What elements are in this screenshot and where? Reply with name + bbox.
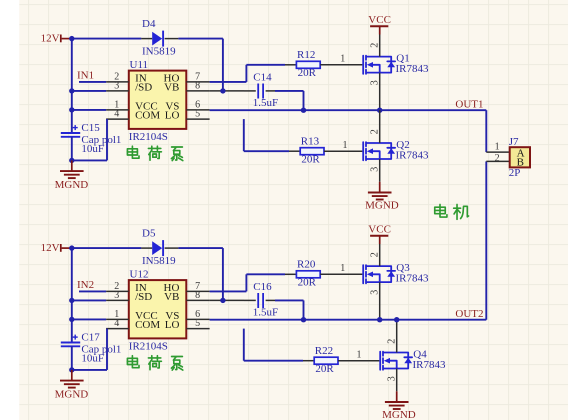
svg-text:1.5uF: 1.5uF	[253, 306, 278, 318]
svg-text:LO: LO	[165, 110, 180, 122]
svg-text:2: 2	[495, 153, 500, 164]
svg-text:R12: R12	[297, 49, 315, 61]
svg-text:5: 5	[195, 109, 200, 120]
svg-text:LO: LO	[165, 319, 180, 331]
svg-text:MGND: MGND	[365, 199, 399, 211]
svg-text:20R: 20R	[315, 363, 334, 375]
svg-text:U12: U12	[130, 269, 149, 281]
svg-text:2: 2	[370, 252, 381, 257]
svg-text:1: 1	[340, 263, 345, 274]
svg-text:C15: C15	[81, 122, 100, 134]
svg-text:IN1: IN1	[77, 70, 94, 82]
svg-text:IR7843: IR7843	[396, 149, 430, 161]
svg-text:1: 1	[343, 140, 348, 151]
svg-text:4: 4	[114, 318, 119, 329]
svg-text:20R: 20R	[298, 67, 317, 79]
svg-text:20R: 20R	[301, 153, 320, 165]
svg-text:MGND: MGND	[55, 179, 89, 191]
svg-text:1: 1	[495, 142, 500, 153]
svg-text:5: 5	[195, 318, 200, 329]
svg-text:IN5819: IN5819	[142, 255, 176, 267]
svg-text:U11: U11	[130, 59, 149, 71]
svg-text:IR2104S: IR2104S	[129, 340, 168, 352]
svg-text:C16: C16	[253, 281, 272, 293]
svg-text:C14: C14	[253, 71, 272, 83]
svg-text:3: 3	[114, 290, 119, 301]
svg-text:COM: COM	[135, 319, 160, 331]
svg-text:IN5819: IN5819	[142, 46, 176, 58]
svg-text:8: 8	[195, 290, 200, 301]
svg-text:12V: 12V	[41, 242, 60, 254]
svg-text:VCC: VCC	[368, 224, 391, 236]
svg-text:COM: COM	[135, 110, 160, 122]
svg-text:20R: 20R	[298, 277, 317, 289]
svg-text:VCC: VCC	[368, 14, 391, 26]
svg-text:R13: R13	[301, 136, 320, 148]
svg-text:MGND: MGND	[55, 388, 89, 400]
svg-text:MGND: MGND	[382, 409, 416, 420]
svg-text:IR7843: IR7843	[396, 63, 430, 75]
svg-text:R22: R22	[315, 345, 333, 357]
svg-text:IR2104S: IR2104S	[129, 131, 168, 143]
svg-text:/SD: /SD	[135, 291, 152, 303]
svg-text:VB: VB	[164, 82, 179, 94]
svg-text:OUT2: OUT2	[455, 308, 483, 320]
svg-text:/SD: /SD	[135, 82, 152, 94]
svg-text:OUT1: OUT1	[455, 99, 483, 111]
svg-text:10uF: 10uF	[81, 143, 104, 155]
svg-text:4: 4	[114, 109, 119, 120]
svg-text:12V: 12V	[41, 33, 60, 45]
svg-text:2P: 2P	[509, 167, 521, 179]
svg-text:1.5uF: 1.5uF	[253, 97, 278, 109]
svg-text:VB: VB	[164, 291, 179, 303]
svg-text:D5: D5	[142, 227, 156, 239]
svg-text:C17: C17	[81, 332, 100, 344]
svg-text:R20: R20	[297, 259, 316, 271]
svg-text:J7: J7	[509, 136, 519, 148]
svg-text:1: 1	[357, 349, 362, 360]
svg-text:3: 3	[114, 81, 119, 92]
svg-text:IR7843: IR7843	[396, 273, 430, 285]
svg-text:D4: D4	[142, 18, 156, 30]
svg-text:10uF: 10uF	[81, 352, 104, 364]
svg-text:1: 1	[340, 54, 345, 65]
svg-text:8: 8	[195, 81, 200, 92]
svg-text:IN2: IN2	[77, 279, 94, 291]
svg-text:IR7843: IR7843	[413, 359, 447, 371]
